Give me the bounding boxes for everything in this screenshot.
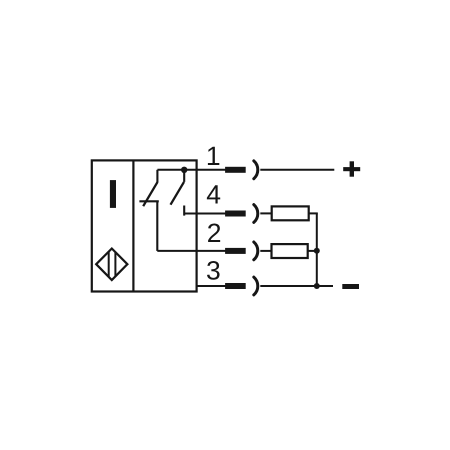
plus terminal symbol <box>343 161 360 176</box>
wire pin3 to connector <box>197 285 226 287</box>
proximity sensor diamond <box>96 249 127 281</box>
node junction dot on pin1 wire <box>181 167 187 173</box>
resistor R1 <box>272 206 309 220</box>
svg-text:3: 3 <box>206 256 221 286</box>
sensor body outline <box>92 160 197 291</box>
resistor R2 <box>272 244 308 258</box>
wire R2 to bus <box>308 250 317 252</box>
wire pin4 to connector <box>184 213 225 215</box>
wire pin3 to minus <box>260 285 333 287</box>
connector socket arc 1 <box>254 161 258 179</box>
wire R1 to bus <box>309 212 318 214</box>
sensor body divider <box>132 160 134 291</box>
connector pin bar 2 <box>225 248 246 254</box>
switch NO arm diagonal <box>171 182 185 205</box>
node junction dot R2/bus <box>314 248 320 254</box>
svg-text:1: 1 <box>206 141 221 171</box>
connector pin bar 1 <box>225 167 246 173</box>
connector pin bar 4 <box>225 211 246 217</box>
connector pin bar 3 <box>225 283 246 289</box>
svg-text:4: 4 <box>206 180 221 210</box>
diamond inner left line <box>108 252 110 277</box>
switch NC fixed contact bar <box>139 200 158 202</box>
connector socket arc 4 <box>254 205 258 223</box>
wire pin1 to plus <box>260 169 334 171</box>
active face bar <box>110 180 116 208</box>
switch NO arm stub from junction <box>183 170 185 182</box>
connector socket arc 2 <box>254 242 258 260</box>
wire NC contact down to pin2 <box>156 201 158 251</box>
wire pin4 to resistor R1 <box>260 212 271 214</box>
connector socket arc 3 <box>254 277 258 295</box>
minus terminal symbol <box>342 284 359 289</box>
bus vertical wire <box>316 213 318 286</box>
wire pin1 internal+external to connector <box>157 169 225 171</box>
diamond inner right line <box>114 252 116 276</box>
svg-text:2: 2 <box>207 218 222 248</box>
switch NC terminal stub <box>156 170 158 183</box>
switch NO fixed contact stub <box>183 206 185 216</box>
wire pin2 to resistor R2 <box>260 250 271 252</box>
wire pin2 to connector <box>157 250 225 252</box>
node junction dot bus/pin3 <box>314 283 320 289</box>
switch NC arm diagonal <box>143 182 157 206</box>
